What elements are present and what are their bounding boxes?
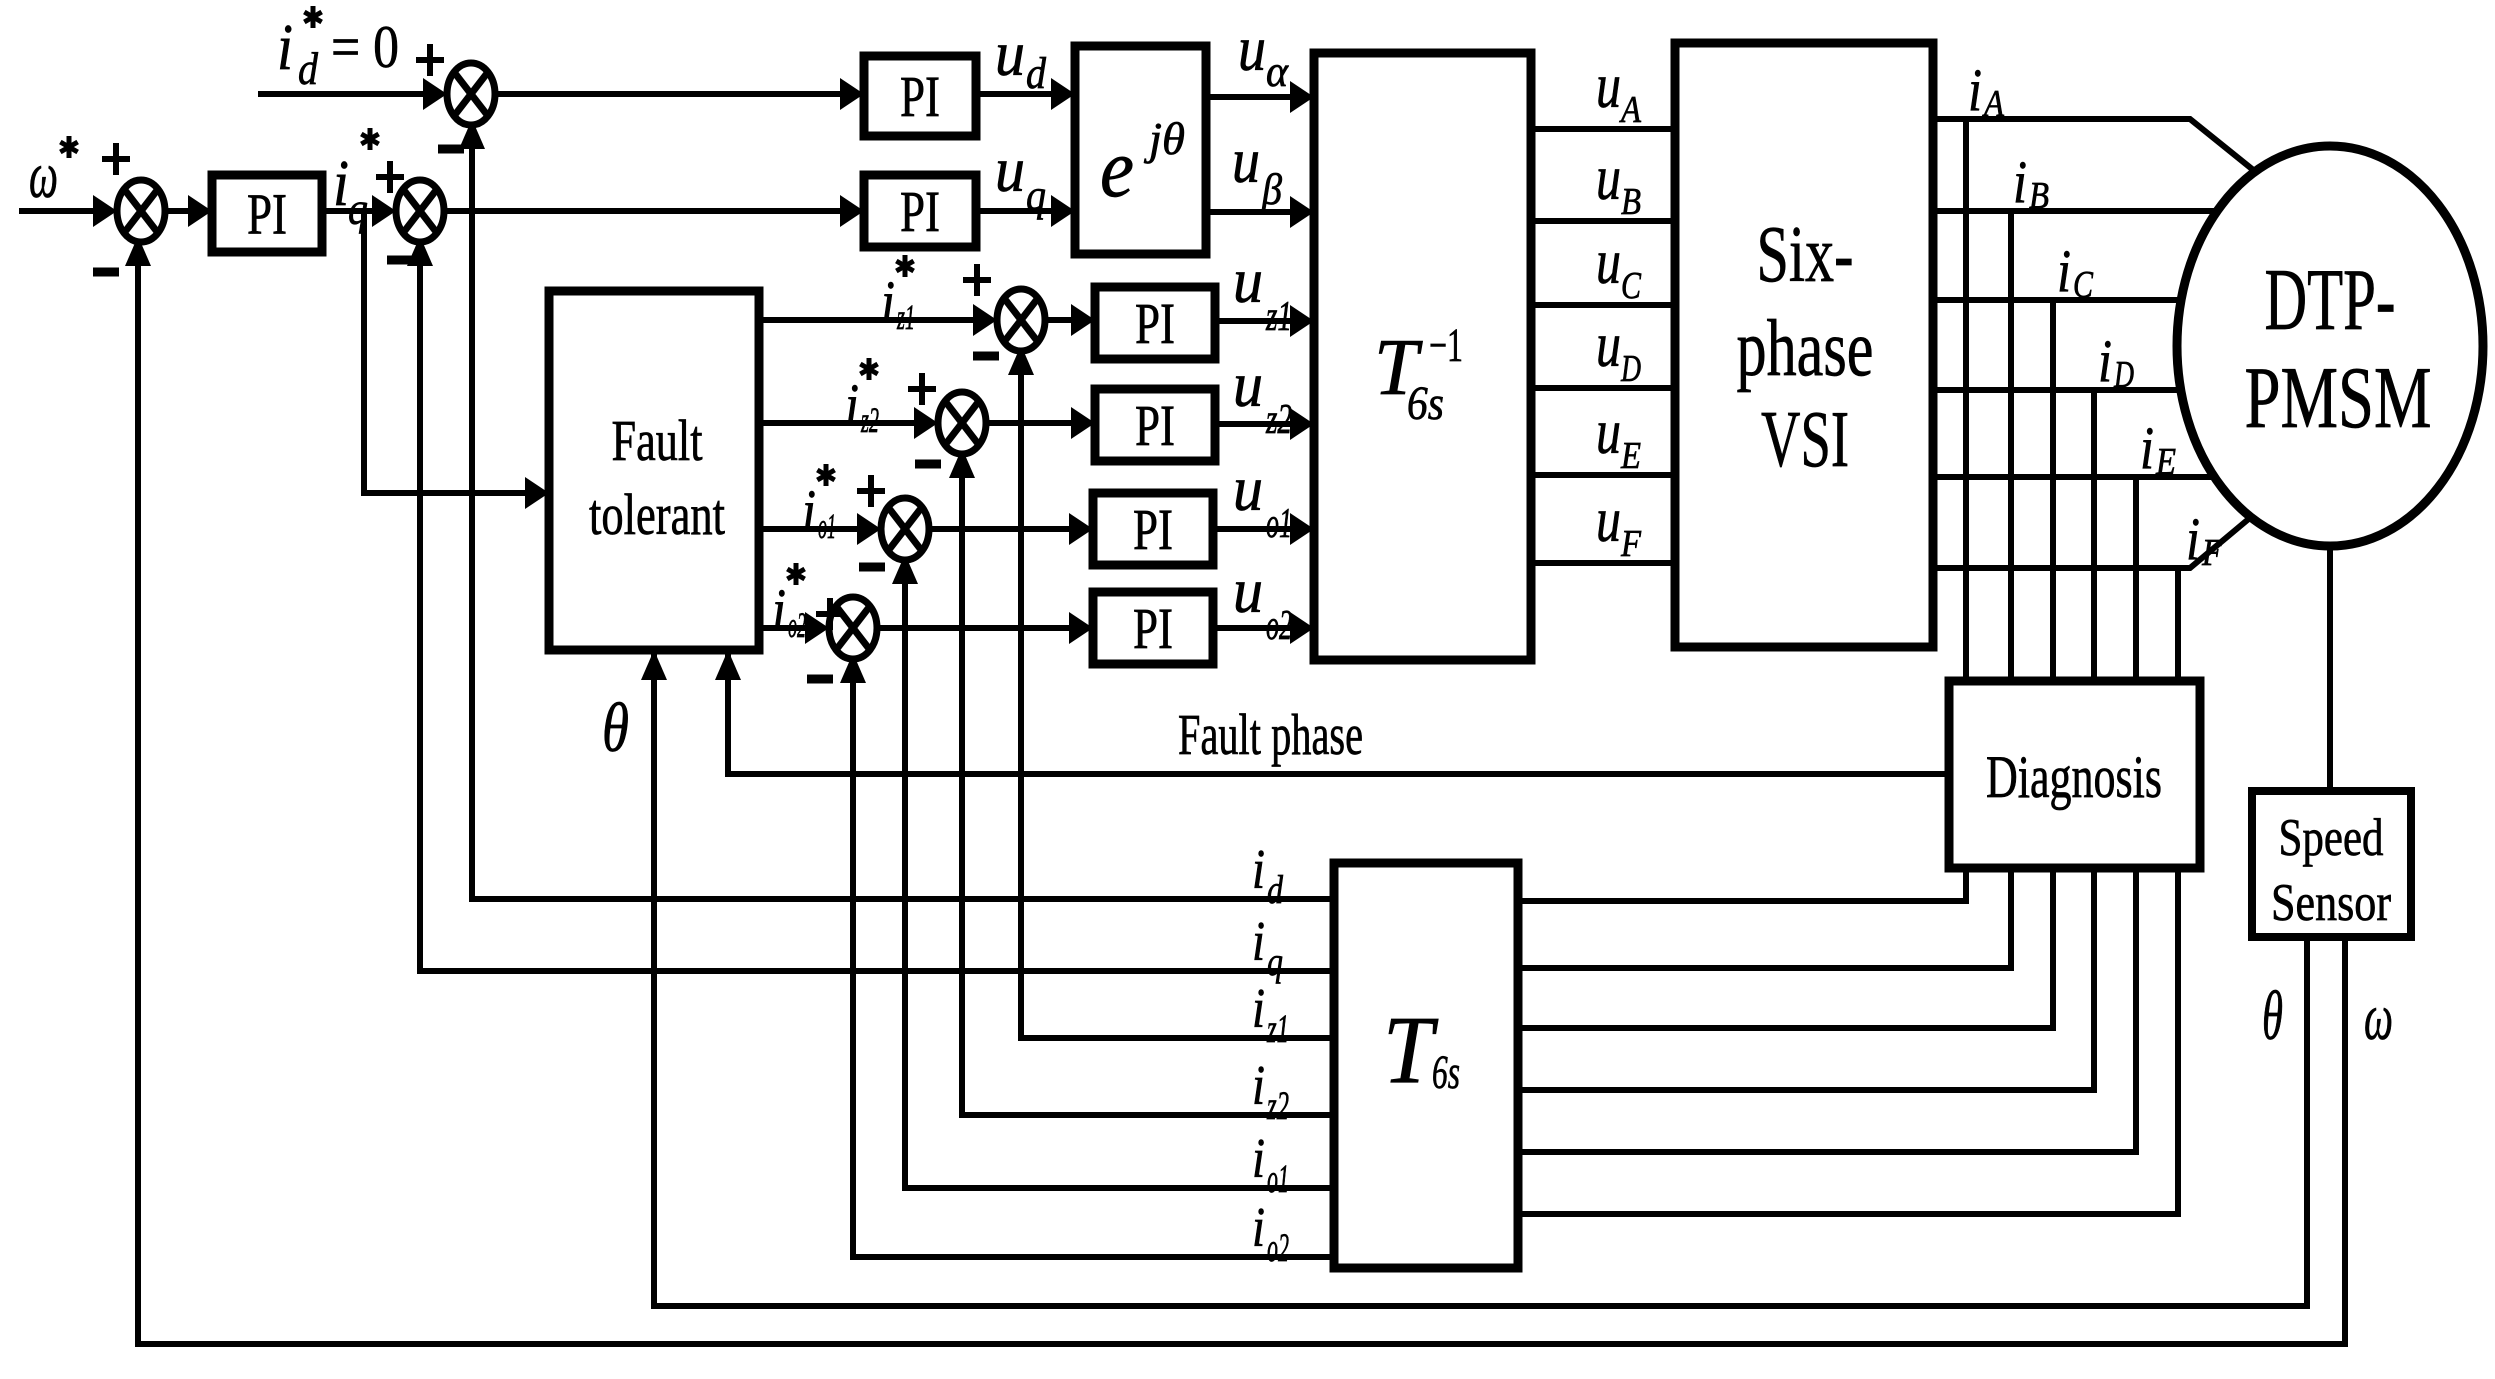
wire PI z2 to T6s^-1 (uz2) bbox=[1215, 421, 1290, 427]
summing junction S5 (iz2) bbox=[938, 392, 986, 454]
block T6s transform bbox=[1334, 863, 1518, 1268]
svg-text:i: i bbox=[1252, 911, 1265, 973]
plus sign S2 bbox=[376, 161, 404, 193]
svg-text:α: α bbox=[1266, 47, 1289, 96]
wire iA phase line bbox=[1933, 119, 2257, 173]
arrow into PI o1 bbox=[1069, 513, 1093, 545]
wire uC bus line bbox=[1531, 302, 1675, 308]
svg-text:z2: z2 bbox=[860, 400, 879, 440]
svg-text:u: u bbox=[1233, 349, 1263, 420]
block e^jtheta rotation bbox=[1075, 46, 1206, 254]
block Diagnosis bbox=[1949, 681, 2200, 868]
svg-text:u: u bbox=[1596, 309, 1621, 380]
wire PI o2 to T6s^-1 (uo2) bbox=[1213, 625, 1290, 631]
arrow omega minus input bbox=[125, 236, 151, 266]
svg-text:z2: z2 bbox=[1266, 1083, 1289, 1128]
svg-text:Diagnosis: Diagnosis bbox=[1986, 744, 2162, 810]
wire id feedback bbox=[472, 121, 1334, 899]
wire uA bus line bbox=[1531, 126, 1675, 132]
wire phase F Diagnosis to T6s bbox=[1518, 868, 2178, 1214]
minus sign S4 bbox=[973, 352, 999, 361]
svg-text:Fault phase: Fault phase bbox=[1178, 702, 1363, 767]
block PI z2 bbox=[1095, 389, 1215, 461]
summing junction S6 (io1) bbox=[881, 498, 929, 560]
svg-text:PI: PI bbox=[1133, 596, 1173, 661]
wire phase A drop to Diagnosis bbox=[1963, 119, 1969, 681]
block PI q-axis bbox=[864, 175, 976, 247]
wire iB phase line bbox=[1933, 208, 2217, 214]
svg-text:z1: z1 bbox=[1265, 294, 1292, 340]
block Six-phase VSI bbox=[1675, 43, 1933, 647]
svg-text:θ: θ bbox=[2262, 978, 2283, 1055]
svg-text:PI: PI bbox=[247, 182, 287, 247]
arrow ud into e^jtheta bbox=[1051, 78, 1075, 110]
svg-text:u: u bbox=[1233, 245, 1263, 316]
wire branch iq* down to fault tolerant bbox=[364, 211, 525, 493]
wire phase B drop to Diagnosis bbox=[2008, 211, 2014, 681]
wire PI speed to S2 (iq* line) bbox=[322, 208, 373, 214]
block PI d-axis bbox=[864, 56, 976, 136]
svg-text:u: u bbox=[1233, 453, 1263, 524]
svg-text:q: q bbox=[1026, 171, 1046, 220]
minus sign S2 bbox=[387, 256, 413, 265]
wire S7 to PI o2 bbox=[877, 625, 1069, 631]
arrow into PI speed bbox=[188, 195, 212, 227]
wire phase E Diagnosis to T6s bbox=[1518, 868, 2136, 1152]
wire phase D Diagnosis to T6s bbox=[1518, 868, 2094, 1090]
wire id*=0 input bbox=[258, 91, 424, 97]
svg-text:A: A bbox=[1981, 83, 2004, 125]
svg-text:β: β bbox=[1261, 165, 1282, 214]
arrow into PI z2 bbox=[1071, 407, 1095, 439]
svg-text:u: u bbox=[1238, 13, 1266, 84]
arrow into summing junction S7 bbox=[805, 612, 829, 644]
svg-text:z1: z1 bbox=[1266, 1006, 1289, 1051]
svg-text:tolerant: tolerant bbox=[589, 482, 725, 547]
svg-text:o2: o2 bbox=[788, 605, 806, 645]
arrow into fault tolerant input bbox=[525, 477, 549, 509]
arrow uz1 into T6s^-1 bbox=[1290, 305, 1314, 337]
minus sign S5 bbox=[915, 460, 941, 469]
svg-text:Fault: Fault bbox=[612, 408, 703, 473]
summing junction S3 (id) bbox=[447, 63, 495, 125]
svg-text:o1: o1 bbox=[1267, 1156, 1289, 1201]
wire phase D drop to Diagnosis bbox=[2091, 390, 2097, 681]
summing junction S1 (omega) bbox=[117, 180, 165, 242]
svg-text:PI: PI bbox=[1135, 393, 1175, 458]
wire omega feedback from speed sensor to S1 bbox=[138, 238, 2345, 1344]
block Fault tolerant bbox=[549, 291, 759, 650]
svg-text:i: i bbox=[1252, 1128, 1265, 1190]
wire iz1* to S4 bbox=[759, 317, 973, 323]
arrow iz1 minus input bbox=[1008, 345, 1034, 375]
svg-text:B: B bbox=[1621, 181, 1641, 223]
svg-text:o1: o1 bbox=[818, 506, 836, 546]
arrow id minus input bbox=[459, 119, 485, 149]
wire iq feedback bbox=[420, 238, 1334, 971]
svg-text:E: E bbox=[1620, 435, 1641, 477]
svg-text:C: C bbox=[1621, 265, 1642, 307]
minus sign S3 bbox=[438, 145, 464, 154]
svg-text:u: u bbox=[1232, 125, 1260, 196]
wire io1 feedback bbox=[905, 556, 1334, 1188]
block PI z1 bbox=[1095, 287, 1215, 359]
svg-text:e: e bbox=[1100, 122, 1134, 215]
motor ellipse DTP-PMSM bbox=[2177, 146, 2483, 546]
arrow into PI z1 bbox=[1071, 304, 1095, 336]
svg-text:F: F bbox=[1620, 523, 1642, 565]
svg-text:A: A bbox=[1618, 89, 1641, 131]
wire iz2 feedback bbox=[962, 450, 1334, 1115]
svg-text:6s: 6s bbox=[1407, 377, 1444, 430]
wire PI o1 to T6s^-1 (uo1) bbox=[1213, 526, 1290, 532]
wire motor to speed sensor bbox=[2327, 546, 2333, 791]
wire phase B Diagnosis to T6s bbox=[1518, 868, 2011, 968]
wire uB bus line bbox=[1531, 218, 1675, 224]
plus sign S7 bbox=[816, 598, 844, 630]
svg-text:Six-: Six- bbox=[1757, 211, 1854, 299]
wire S4 to PI z1 bbox=[1045, 317, 1071, 323]
arrow into summing junction S1 bbox=[93, 195, 117, 227]
block PI speed controller bbox=[212, 175, 322, 252]
wire Fault phase from Diagnosis to fault tolerant bbox=[728, 654, 1949, 774]
svg-text:B: B bbox=[2029, 175, 2049, 217]
svg-text:q: q bbox=[348, 183, 368, 234]
plus sign S1 bbox=[102, 143, 130, 175]
svg-text:D: D bbox=[2113, 354, 2134, 396]
svg-text:i: i bbox=[1252, 839, 1265, 901]
arrow io2 minus input bbox=[840, 653, 866, 683]
wire phase E drop to Diagnosis bbox=[2133, 477, 2139, 681]
svg-text:PI: PI bbox=[900, 179, 940, 244]
arrow iq minus input bbox=[407, 236, 433, 266]
svg-text:Speed: Speed bbox=[2279, 809, 2384, 867]
svg-text:T: T bbox=[1383, 996, 1439, 1103]
plus sign S5 bbox=[908, 373, 936, 405]
svg-text:u: u bbox=[1233, 555, 1263, 626]
svg-text:6s: 6s bbox=[1432, 1046, 1460, 1099]
svg-text:i: i bbox=[2057, 238, 2071, 304]
wire S1 to PI speed bbox=[165, 208, 189, 214]
svg-text:−1: −1 bbox=[1429, 319, 1463, 372]
wire iD phase line bbox=[1933, 387, 2181, 393]
svg-text:i: i bbox=[333, 147, 349, 220]
arrow u_alpha into T6s^-1 bbox=[1290, 81, 1314, 113]
svg-text:u: u bbox=[1596, 226, 1621, 297]
svg-text:D: D bbox=[1620, 348, 1641, 390]
svg-text:i: i bbox=[2013, 149, 2027, 215]
svg-text:d: d bbox=[1026, 49, 1047, 98]
wire S5 to PI z2 bbox=[986, 420, 1071, 426]
svg-text:PI: PI bbox=[900, 64, 940, 129]
wire u_alpha bbox=[1206, 94, 1290, 100]
svg-text:u: u bbox=[1596, 484, 1621, 555]
svg-text:VSI: VSI bbox=[1761, 396, 1849, 484]
wire iE phase line bbox=[1933, 474, 2214, 480]
arrow into summing junction S5 bbox=[914, 407, 938, 439]
wire u_beta bbox=[1206, 209, 1290, 215]
svg-text:F: F bbox=[2201, 532, 2223, 574]
svg-text:u: u bbox=[1596, 396, 1621, 467]
wire omega* input bbox=[19, 208, 94, 214]
svg-text:i: i bbox=[1252, 978, 1265, 1040]
wire io2 feedback bbox=[853, 655, 1334, 1257]
svg-text:PI: PI bbox=[1135, 291, 1175, 356]
svg-text:i: i bbox=[1252, 1197, 1265, 1259]
svg-text:= 0: = 0 bbox=[331, 14, 399, 80]
wire PI d to e^jtheta (ud) bbox=[976, 91, 1051, 97]
block PI o1 bbox=[1093, 493, 1213, 565]
svg-text:θ: θ bbox=[602, 690, 629, 767]
wire phase A Diagnosis to T6s bbox=[1518, 868, 1966, 901]
arrow io1 minus input bbox=[892, 554, 918, 584]
wire S2 to PI q bbox=[444, 208, 840, 214]
arrow into PI q bbox=[840, 195, 864, 227]
minus sign S6 bbox=[859, 563, 885, 572]
wire uD bus line bbox=[1531, 385, 1675, 391]
summing junction S7 (io2) bbox=[829, 597, 877, 659]
summing junction S2 (iq) bbox=[396, 180, 444, 242]
svg-text:i: i bbox=[277, 11, 293, 84]
wire theta from speed sensor to fault tolerant bbox=[654, 654, 2307, 1306]
svg-text:o2: o2 bbox=[1266, 603, 1292, 649]
svg-text:i: i bbox=[2186, 506, 2200, 572]
block PI o2 bbox=[1093, 592, 1213, 664]
arrow into summing junction S4 bbox=[973, 304, 997, 336]
svg-text:PI: PI bbox=[1133, 497, 1173, 562]
arrow iz2 minus input bbox=[949, 448, 975, 478]
wire uF bus line bbox=[1531, 560, 1675, 566]
arrow uo2 into T6s^-1 bbox=[1290, 612, 1314, 644]
svg-text:d: d bbox=[298, 43, 319, 94]
wire iF phase line bbox=[1933, 517, 2251, 568]
wire io2* to S7 bbox=[759, 625, 805, 631]
wire phase C Diagnosis to T6s bbox=[1518, 868, 2053, 1028]
svg-text:i: i bbox=[845, 372, 859, 438]
svg-text:PMSM: PMSM bbox=[2245, 350, 2432, 447]
plus sign S4 bbox=[963, 264, 991, 296]
summing junction S4 (iz1) bbox=[997, 289, 1045, 351]
arrow uz2 into T6s^-1 bbox=[1290, 408, 1314, 440]
wire uE bus line bbox=[1531, 472, 1675, 478]
arrow into summing junction S3 bbox=[423, 78, 447, 110]
block T6s^-1 inverse transform bbox=[1314, 53, 1531, 660]
svg-text:u: u bbox=[1596, 50, 1621, 121]
svg-text:i: i bbox=[1968, 57, 1982, 123]
plus sign S6 bbox=[857, 475, 885, 507]
wire iz2* to S5 bbox=[759, 420, 914, 426]
svg-text:z1: z1 bbox=[896, 297, 915, 337]
arrow uo1 into T6s^-1 bbox=[1290, 513, 1314, 545]
svg-text:d: d bbox=[1267, 867, 1284, 912]
svg-text:i: i bbox=[772, 577, 786, 643]
plus sign S3 bbox=[416, 44, 444, 76]
svg-text:phase: phase bbox=[1737, 305, 1874, 393]
svg-text:i: i bbox=[2098, 328, 2112, 394]
minus sign S1 bbox=[93, 268, 119, 277]
svg-text:DTP-: DTP- bbox=[2265, 252, 2396, 349]
svg-text:ω: ω bbox=[29, 139, 58, 212]
svg-text:o2: o2 bbox=[1267, 1225, 1289, 1270]
arrow Fault phase into fault tolerant bbox=[715, 650, 741, 680]
wire S6 to PI o1 bbox=[929, 526, 1069, 532]
svg-text:u: u bbox=[1596, 142, 1621, 213]
svg-text:u: u bbox=[995, 134, 1025, 205]
svg-text:E: E bbox=[2155, 441, 2176, 483]
wire PI z1 to T6s^-1 (uz1) bbox=[1215, 318, 1290, 324]
arrow theta into fault tolerant bbox=[641, 650, 667, 680]
wire phase F drop to Diagnosis bbox=[2175, 568, 2181, 681]
arrow into summing junction S2 bbox=[372, 195, 396, 227]
svg-text:z2: z2 bbox=[1265, 397, 1292, 443]
wire PI q to e^jtheta (uq) bbox=[976, 208, 1051, 214]
arrow into PI o2 bbox=[1069, 612, 1093, 644]
svg-text:Sensor: Sensor bbox=[2271, 874, 2391, 932]
wire iz1 feedback bbox=[1021, 347, 1334, 1038]
arrow into PI d bbox=[840, 78, 864, 110]
svg-text:i: i bbox=[1252, 1055, 1265, 1117]
svg-text:u: u bbox=[995, 18, 1025, 89]
arrow uq into e^jtheta bbox=[1051, 195, 1075, 227]
svg-text:jθ: jθ bbox=[1144, 113, 1185, 164]
wire io1* to S6 bbox=[759, 526, 857, 532]
minus sign S7 bbox=[807, 675, 833, 684]
svg-text:i: i bbox=[881, 269, 895, 335]
wire phase C drop to Diagnosis bbox=[2050, 300, 2056, 681]
svg-text:ω: ω bbox=[2364, 981, 2393, 1054]
svg-text:o1: o1 bbox=[1266, 501, 1292, 547]
svg-text:i: i bbox=[2140, 415, 2154, 481]
wire iC phase line bbox=[1933, 297, 2181, 303]
svg-text:q: q bbox=[1267, 939, 1283, 984]
svg-text:i: i bbox=[802, 478, 816, 544]
arrow u_beta into T6s^-1 bbox=[1290, 196, 1314, 228]
svg-text:C: C bbox=[2073, 264, 2094, 306]
wire S3 to PI d bbox=[495, 91, 840, 97]
arrow into summing junction S6 bbox=[857, 513, 881, 545]
block Speed Sensor bbox=[2252, 791, 2411, 937]
